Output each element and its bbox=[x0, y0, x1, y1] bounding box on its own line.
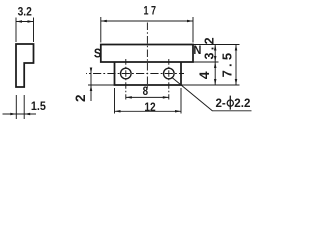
svg-text:S: S bbox=[94, 47, 101, 61]
svg-text:2-: 2- bbox=[216, 96, 226, 110]
dim 2 extension line bbox=[88, 84, 115, 86]
svg-text:3.2: 3.2 bbox=[18, 6, 32, 19]
dim 12 extension lines bbox=[115, 88, 182, 114]
svg-text:12: 12 bbox=[144, 101, 155, 114]
svg-text:3.2: 3.2 bbox=[202, 35, 216, 59]
hole right vertical centerline bbox=[168, 59, 170, 100]
svg-text:2: 2 bbox=[73, 94, 88, 102]
magnet bar outline bbox=[101, 45, 193, 63]
dim 12 dimension line bbox=[115, 110, 182, 112]
svg-text:1.5: 1.5 bbox=[31, 101, 47, 114]
side view part outline bbox=[16, 44, 34, 87]
dim 7.5 dimension line bbox=[235, 45, 237, 86]
svg-text:N: N bbox=[193, 45, 201, 57]
main vertical centerline bbox=[146, 23, 148, 90]
extension line bar top right bbox=[193, 44, 240, 46]
dim 17 extension lines bbox=[101, 17, 193, 43]
svg-text:2.2: 2.2 bbox=[234, 96, 250, 110]
hole right bbox=[164, 68, 175, 79]
extension line plate bottom right bbox=[181, 84, 240, 86]
dim 1.5 dimension line bbox=[3, 113, 37, 115]
dim 3.2/4 dimension line bbox=[214, 45, 216, 86]
phi symbol bbox=[227, 96, 233, 110]
dim 3.2 extension lines bbox=[16, 18, 34, 43]
dim 1.5 extension lines bbox=[16, 95, 24, 119]
hole centerline horizontal bbox=[86, 73, 184, 75]
svg-text:8: 8 bbox=[143, 85, 148, 98]
arrowheads bbox=[16, 20, 22, 23]
dim 2 dimension line bbox=[90, 68, 92, 102]
plate outline bbox=[115, 62, 182, 85]
hole left bbox=[121, 68, 132, 79]
extension line bar bottom right bbox=[193, 61, 219, 63]
dim 17 dimension line bbox=[101, 20, 193, 22]
leader line 2-phi2.2 bbox=[172, 78, 252, 111]
hole left vertical centerline bbox=[125, 59, 127, 100]
dim 8 dimension line bbox=[126, 96, 169, 98]
dim 3.2 dimension line bbox=[16, 21, 34, 23]
svg-text:4: 4 bbox=[196, 71, 212, 79]
svg-text:1 7: 1 7 bbox=[143, 5, 156, 17]
svg-text:7.5: 7.5 bbox=[219, 50, 234, 78]
